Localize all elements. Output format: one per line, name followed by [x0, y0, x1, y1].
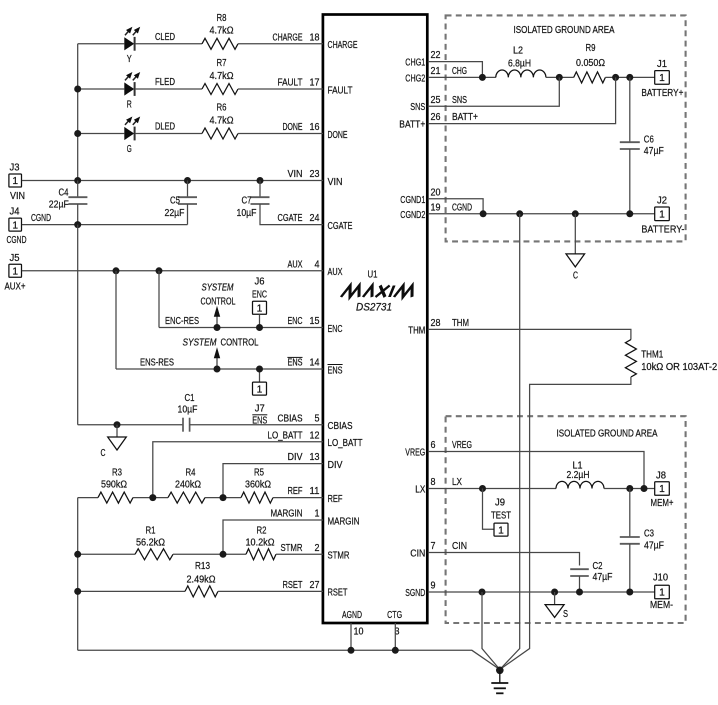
junction SGND / C2	[576, 589, 583, 596]
junction LX / C3	[626, 485, 633, 492]
svg-text:1: 1	[498, 525, 504, 536]
svg-text:CIN: CIN	[410, 549, 425, 560]
svg-text:CBIAS: CBIAS	[328, 421, 353, 432]
wire CTG stub	[394, 623, 396, 650]
svg-text:C2: C2	[593, 561, 603, 572]
svg-text:4.7kΩ: 4.7kΩ	[210, 115, 234, 126]
svg-text:VREG: VREG	[405, 448, 425, 459]
svg-text:SYSTEM: SYSTEM	[183, 337, 218, 348]
connector J10	[655, 585, 670, 599]
wire CBIAS net left of C1	[78, 424, 183, 426]
svg-text:0.050Ω: 0.050Ω	[576, 58, 605, 69]
svg-text:VIN: VIN	[10, 191, 25, 202]
wire CLED anode	[78, 43, 125, 45]
wire CGND1 pin 20 stub	[428, 199, 483, 214]
svg-text:FLED: FLED	[155, 77, 175, 88]
svg-text:ISOLATED GROUND AREA: ISOLATED GROUND AREA	[557, 429, 658, 440]
wire AUX net	[22, 270, 323, 272]
LED Y (charge LED)	[124, 37, 134, 50]
resistor R4	[168, 492, 205, 503]
wire LO_BATT net	[153, 442, 323, 498]
wire DLED anode	[78, 133, 125, 135]
svg-text:4.7kΩ: 4.7kΩ	[210, 26, 234, 37]
svg-text:DLED: DLED	[155, 122, 175, 133]
junction REF / DIV	[220, 494, 227, 501]
capacitor C1	[182, 418, 184, 432]
chassis ground stem (battery)	[574, 214, 576, 254]
svg-text:J3: J3	[10, 163, 21, 174]
resistor R3	[98, 492, 133, 503]
svg-text:2.2µH: 2.2µH	[567, 470, 590, 481]
wire SGND drop to ground	[482, 592, 500, 670]
wire ENS-RES vertical	[115, 271, 117, 369]
capacitor C6 top lead	[629, 77, 631, 142]
svg-text:11: 11	[310, 486, 320, 497]
svg-text:17: 17	[310, 78, 320, 89]
isolated ground area box (bottom)	[446, 416, 686, 623]
svg-text:C1: C1	[185, 393, 195, 404]
wire BATT+ net	[428, 77, 616, 123]
wire CLED net	[135, 43, 202, 45]
svg-text:RSET: RSET	[328, 588, 348, 599]
svg-text:21: 21	[431, 66, 441, 77]
chassis ground stem (S)	[554, 592, 556, 605]
wire CHG net	[428, 76, 496, 78]
capacitor C7 bottom lead to CGATE	[260, 204, 323, 225]
wire ENC net	[159, 327, 323, 329]
capacitor C4 top lead	[77, 181, 79, 198]
wire J6 stub	[259, 314, 261, 327]
connector J1	[655, 71, 670, 85]
wire STMR net segment 1	[78, 553, 135, 555]
wire REF net segment 2	[133, 497, 168, 499]
svg-text:S: S	[563, 609, 568, 620]
system control arrow (ENS)	[216, 358, 218, 369]
wire R7 to FAULT pin	[238, 88, 323, 90]
svg-text:VIN: VIN	[288, 169, 303, 180]
wire CGND drop to system ground	[500, 214, 520, 670]
junction SGND / ground drop	[479, 589, 486, 596]
svg-text:47µF: 47µF	[644, 541, 664, 552]
svg-text:R: R	[127, 99, 132, 110]
wire R8 to CHARGE pin	[238, 43, 323, 45]
svg-text:18: 18	[310, 32, 320, 43]
junction AUX / ENS-RES branch	[113, 267, 120, 274]
svg-text:J10: J10	[653, 573, 669, 584]
Maxim logo	[341, 286, 417, 298]
capacitor C2 bottom lead	[579, 576, 581, 592]
isolated ground area box (top)	[446, 15, 686, 241]
junction anode rail / DLED	[74, 130, 81, 137]
svg-text:MEM-: MEM-	[650, 600, 673, 611]
capacitor C3 top lead	[629, 489, 631, 538]
svg-text:23: 23	[310, 169, 320, 180]
capacitor C2	[570, 568, 589, 570]
svg-text:4: 4	[315, 259, 321, 270]
chassis ground C (battery)	[566, 254, 585, 267]
capacitor C3 bottom lead	[629, 544, 631, 592]
junction AGND / rail	[348, 647, 355, 654]
svg-text:10µF: 10µF	[178, 404, 198, 415]
svg-text:LO_BATT: LO_BATT	[328, 438, 363, 449]
wire THM1 return	[500, 377, 631, 670]
capacitor C3	[620, 536, 640, 538]
svg-text:LX: LX	[415, 485, 425, 496]
svg-text:THM1: THM1	[641, 350, 663, 361]
svg-text:TEST: TEST	[491, 510, 511, 521]
wire STMR net segment 3	[276, 553, 323, 555]
wire ENS net	[116, 368, 323, 370]
junction CTG / rail	[392, 647, 399, 654]
wire CIN net	[428, 553, 580, 566]
svg-text:REF: REF	[288, 486, 303, 497]
junction ENC / arrow	[214, 324, 221, 331]
wire VIN net	[22, 180, 323, 182]
svg-text:R1: R1	[146, 525, 156, 536]
svg-text:CGND: CGND	[452, 202, 472, 213]
svg-text:C: C	[573, 271, 578, 282]
junction SGND / C3	[626, 589, 633, 596]
resistor R2	[246, 549, 276, 560]
svg-text:2: 2	[315, 543, 320, 554]
svg-text:Y: Y	[127, 54, 132, 65]
resistor R9	[574, 72, 606, 83]
svg-text:19: 19	[431, 202, 441, 213]
junction CHG / SNS	[556, 74, 563, 81]
svg-text:VIN: VIN	[328, 177, 343, 188]
svg-text:J6: J6	[255, 276, 266, 287]
wire RSET net segment 1	[78, 590, 185, 592]
capacitor C4	[68, 196, 87, 198]
capacitor C4 bottom lead	[77, 204, 79, 225]
wire DLED net	[135, 133, 202, 135]
svg-text:THM: THM	[408, 325, 425, 336]
svg-text:SNS: SNS	[410, 102, 425, 113]
svg-text:CBIAS: CBIAS	[278, 413, 303, 424]
svg-text:BATT+: BATT+	[452, 112, 478, 123]
svg-text:BATT+: BATT+	[399, 120, 425, 131]
svg-text:DIV: DIV	[328, 460, 343, 471]
junction AUX / ENC-RES branch	[156, 267, 163, 274]
svg-text:ENC: ENC	[328, 324, 343, 335]
resistor R7	[202, 84, 238, 95]
svg-text:1: 1	[12, 267, 18, 278]
svg-text:R3: R3	[112, 468, 122, 479]
junction CGND / C6	[626, 210, 633, 217]
connector J2	[655, 207, 670, 221]
wire SNS net	[428, 77, 560, 106]
svg-text:ENC: ENC	[288, 316, 303, 327]
svg-text:SNS: SNS	[452, 95, 467, 106]
svg-text:DONE: DONE	[328, 130, 348, 141]
svg-text:R4: R4	[186, 468, 196, 479]
svg-text:2.49kΩ: 2.49kΩ	[187, 574, 216, 585]
svg-text:J1: J1	[657, 59, 667, 70]
IC U1 DS2731 outline	[323, 15, 427, 624]
svg-text:DONE: DONE	[283, 122, 303, 133]
wire CHG1 pin 22 stub	[428, 62, 483, 78]
svg-text:RSET: RSET	[283, 580, 303, 591]
wire REF net segment 3	[205, 497, 241, 499]
svg-text:47µF: 47µF	[593, 572, 613, 583]
svg-text:10kΩ OR 103AT-2: 10kΩ OR 103AT-2	[641, 362, 717, 373]
junction CGND / C4	[74, 221, 81, 228]
svg-text:1: 1	[659, 588, 665, 599]
connector J9	[494, 523, 508, 536]
junction STMR / MARGIN	[220, 551, 227, 558]
svg-text:22: 22	[431, 50, 441, 61]
junction REF / LO_BATT	[149, 494, 156, 501]
wire J7 stub	[259, 369, 261, 382]
capacitor C5	[178, 196, 197, 198]
svg-text:8: 8	[431, 477, 437, 488]
junction C6 top	[626, 74, 633, 81]
thermistor THM1	[625, 340, 636, 377]
svg-text:9: 9	[431, 581, 436, 592]
wire J9 test branch	[483, 489, 494, 530]
svg-text:28: 28	[431, 318, 441, 329]
svg-text:1: 1	[659, 484, 665, 495]
wire RSET net segment 2	[218, 590, 323, 592]
wire CGND net (right)	[428, 213, 655, 215]
svg-text:22µF: 22µF	[165, 208, 185, 219]
svg-text:J4: J4	[10, 207, 21, 218]
svg-text:12: 12	[310, 430, 320, 441]
svg-text:CHG2: CHG2	[405, 73, 425, 84]
svg-text:ISOLATED GROUND AREA: ISOLATED GROUND AREA	[514, 25, 615, 36]
svg-text:CGND: CGND	[7, 235, 27, 246]
svg-text:AUX+: AUX+	[5, 281, 26, 292]
svg-text:4.7kΩ: 4.7kΩ	[210, 71, 234, 82]
wire R6 to DONE pin	[238, 133, 323, 135]
junction RSET / left rail	[74, 588, 81, 595]
svg-text:360kΩ: 360kΩ	[245, 479, 271, 490]
svg-text:1: 1	[257, 304, 263, 315]
svg-text:1: 1	[257, 384, 263, 395]
capacitor C6 bottom lead	[629, 149, 631, 214]
svg-text:ENS-RES: ENS-RES	[140, 358, 174, 369]
svg-text:DS2731: DS2731	[356, 302, 392, 314]
svg-text:MEM+: MEM+	[651, 498, 674, 509]
connector J8	[655, 482, 670, 496]
junction CGND / drop to system ground	[516, 210, 523, 217]
svg-text:240kΩ: 240kΩ	[175, 479, 201, 490]
svg-text:15: 15	[310, 316, 320, 327]
svg-text:25: 25	[431, 95, 441, 106]
junction VIN / C7	[257, 177, 264, 184]
resistor R6	[202, 128, 238, 139]
svg-text:LX: LX	[452, 477, 462, 488]
wire LX net	[428, 488, 556, 490]
svg-text:VREG: VREG	[452, 440, 472, 451]
svg-text:CGATE: CGATE	[328, 221, 353, 232]
wire THM net	[428, 329, 631, 339]
svg-text:MARGIN: MARGIN	[271, 509, 303, 520]
wire REF net segment 4	[273, 497, 323, 499]
connector J5	[9, 264, 22, 277]
svg-text:G: G	[127, 144, 132, 155]
junction CGND1/CGND2	[480, 210, 487, 217]
svg-text:AUX: AUX	[328, 267, 343, 278]
junction ENS / J7	[256, 366, 263, 373]
connector J6	[253, 301, 267, 314]
svg-text:J9: J9	[495, 498, 505, 509]
junction BATT+ sense	[612, 74, 619, 81]
svg-text:1: 1	[659, 73, 665, 84]
svg-text:STMR: STMR	[328, 551, 350, 562]
svg-text:STMR: STMR	[281, 543, 303, 554]
svg-text:LO_BATT: LO_BATT	[268, 430, 303, 441]
capacitor C7	[251, 196, 270, 198]
junction STMR / left rail	[74, 551, 81, 558]
svg-text:10.2kΩ: 10.2kΩ	[246, 537, 275, 548]
svg-text:1: 1	[12, 176, 18, 187]
connector J3	[9, 174, 22, 187]
svg-text:CHARGE: CHARGE	[273, 32, 303, 43]
svg-text:C: C	[101, 448, 106, 459]
svg-text:1: 1	[12, 220, 18, 231]
svg-text:ENC: ENC	[252, 289, 267, 300]
svg-text:FAULT: FAULT	[278, 78, 303, 89]
wire MARGIN net	[223, 520, 323, 554]
wire R9 to J1	[605, 76, 654, 78]
svg-text:590kΩ: 590kΩ	[101, 479, 127, 490]
svg-text:J5: J5	[10, 253, 21, 264]
capacitor C7 top lead	[259, 181, 261, 198]
chassis ground C (left)	[108, 437, 127, 450]
svg-text:C7: C7	[242, 196, 252, 207]
junction CGND / chassis C	[572, 210, 579, 217]
wire STMR net segment 2	[173, 553, 246, 555]
junction CBIAS / chassis	[114, 421, 121, 428]
svg-text:CONTROL: CONTROL	[221, 337, 259, 348]
svg-text:C3: C3	[644, 529, 654, 540]
svg-text:THM: THM	[452, 318, 469, 329]
wire REF net segment 1	[78, 497, 98, 499]
svg-text:27: 27	[310, 580, 320, 591]
junction LX / VREG	[641, 485, 648, 492]
svg-text:BATTERY-: BATTERY-	[641, 224, 684, 235]
svg-text:C4: C4	[59, 187, 69, 198]
svg-text:R6: R6	[217, 103, 227, 114]
wire L2 to R9	[546, 76, 574, 78]
resistor R1	[135, 549, 173, 560]
connector J4	[9, 218, 22, 231]
wire VREG net	[428, 452, 644, 489]
inductor L1	[556, 481, 604, 488]
system control arrow (ENC)	[216, 316, 218, 327]
svg-text:REF: REF	[328, 494, 343, 505]
svg-text:ENS: ENS	[288, 358, 303, 369]
connector J7	[253, 382, 267, 395]
wire CBIAS net right of C1	[190, 424, 323, 426]
svg-text:47µF: 47µF	[644, 146, 664, 157]
chassis ground S	[545, 605, 564, 618]
junction VIN / rail / C4	[74, 177, 81, 184]
svg-text:7: 7	[431, 541, 436, 552]
svg-text:6.8µH: 6.8µH	[508, 58, 531, 69]
svg-text:CGND: CGND	[31, 213, 51, 224]
wire bottom ground rail	[78, 650, 500, 669]
svg-text:13: 13	[310, 452, 320, 463]
svg-text:CLED: CLED	[155, 32, 175, 43]
inductor L2	[496, 70, 546, 77]
wire ENC-RES vertical	[158, 271, 160, 328]
svg-text:20: 20	[431, 187, 441, 198]
junction LX / J9 test	[479, 485, 486, 492]
svg-text:L2: L2	[513, 46, 523, 57]
wire FLED net	[135, 88, 202, 90]
wire LED anode rail	[77, 44, 79, 181]
svg-text:CGND1: CGND1	[400, 195, 425, 206]
svg-text:16: 16	[310, 122, 320, 133]
svg-text:1: 1	[659, 210, 665, 221]
wire SGND net	[428, 591, 655, 593]
LED G (done LED)	[124, 127, 134, 140]
junction SGND / chassis S	[551, 589, 558, 596]
svg-text:DIV: DIV	[288, 452, 303, 463]
svg-text:BATTERY+: BATTERY+	[641, 88, 683, 99]
svg-text:R5: R5	[254, 468, 264, 479]
svg-text:U1: U1	[368, 270, 378, 281]
svg-text:MARGIN: MARGIN	[328, 516, 360, 527]
svg-text:CHARGE: CHARGE	[328, 40, 358, 51]
wire DIV net	[223, 464, 323, 498]
junction ENC / J6	[256, 324, 263, 331]
svg-text:CHG1: CHG1	[405, 58, 425, 69]
wire L1 to J8	[604, 488, 655, 490]
svg-text:R7: R7	[217, 58, 227, 69]
svg-text:CHG: CHG	[452, 66, 467, 77]
LED R (fault LED)	[124, 82, 134, 95]
wire CGND rail down to CBIAS	[77, 225, 79, 425]
svg-text:AUX: AUX	[288, 259, 303, 270]
svg-text:R13: R13	[195, 561, 210, 572]
svg-text:J8: J8	[656, 470, 667, 481]
junction CHG1/CHG2	[479, 74, 486, 81]
svg-text:SYSTEM: SYSTEM	[202, 283, 235, 294]
capacitor C5 top lead	[187, 181, 189, 198]
svg-text:CGATE: CGATE	[278, 213, 303, 224]
svg-text:R2: R2	[257, 525, 267, 536]
svg-text:24: 24	[310, 213, 320, 224]
svg-text:CIN: CIN	[452, 541, 467, 552]
svg-text:CGND2: CGND2	[400, 210, 425, 221]
svg-text:56.2kΩ: 56.2kΩ	[136, 537, 165, 548]
wire REF left vertical	[77, 498, 79, 651]
ground junction	[496, 667, 504, 675]
resistor R5	[241, 492, 273, 503]
wire FLED anode	[78, 88, 125, 90]
svg-text:R8: R8	[217, 13, 227, 24]
capacitor C5 bottom lead	[187, 204, 189, 225]
junction VIN / C5	[184, 177, 191, 184]
svg-text:CTG: CTG	[387, 610, 402, 621]
svg-text:C5: C5	[170, 196, 180, 207]
svg-text:CONTROL: CONTROL	[201, 297, 236, 308]
svg-text:SGND: SGND	[405, 588, 425, 599]
resistor R8	[202, 38, 238, 49]
svg-text:14: 14	[310, 358, 320, 369]
capacitor C6	[620, 141, 640, 143]
svg-text:ENS: ENS	[328, 365, 343, 376]
svg-text:J2: J2	[657, 196, 667, 207]
svg-text:C6: C6	[644, 135, 654, 146]
svg-text:10µF: 10µF	[237, 208, 257, 219]
junction anode rail / FLED	[74, 86, 81, 93]
svg-text:10: 10	[354, 627, 364, 638]
svg-text:J7: J7	[255, 404, 265, 415]
